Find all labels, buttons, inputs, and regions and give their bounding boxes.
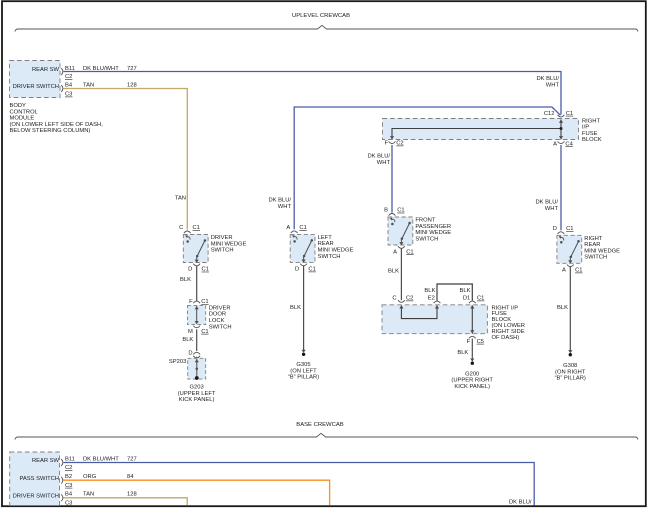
svg-text:WHT: WHT — [546, 83, 560, 89]
connector B11/C2 (BCM uplevel) — [61, 66, 75, 80]
svg-text:C3: C3 — [65, 500, 72, 506]
connector D (inline) — [188, 350, 200, 358]
svg-text:SP203: SP203 — [169, 359, 186, 365]
connector A/C1 (bottom of right rear mini wedge switch) — [562, 265, 582, 274]
svg-text:MINI WEDGE: MINI WEDGE — [584, 248, 620, 254]
ground G305 — [288, 350, 319, 381]
driver door lock switch — [188, 305, 206, 324]
connector E2 (fuse block lower) — [428, 296, 441, 304]
connector B/C1 (top of front passenger mini wedge switch) — [384, 208, 404, 216]
wire BLK (driver switch to door lock switch) — [196, 266, 198, 301]
svg-text:C: C — [179, 225, 183, 231]
label TAN 128 — [83, 82, 137, 88]
label DK BLU/WHT 727 (base) — [83, 456, 137, 462]
svg-text:DRIVER: DRIVER — [209, 305, 231, 311]
wire BLK (front passenger switch to C2) — [400, 249, 402, 301]
svg-text:C2: C2 — [65, 465, 72, 471]
svg-text:(ON LOWER LEFT SIDE OF DASH,: (ON LOWER LEFT SIDE OF DASH, — [10, 122, 104, 128]
wire ORG 84 (base) — [64, 480, 330, 505]
svg-text:PASS SWITCH: PASS SWITCH — [19, 476, 59, 482]
svg-text:C1: C1 — [406, 249, 413, 255]
svg-text:BLK: BLK — [457, 350, 468, 356]
svg-text:128: 128 — [127, 492, 137, 498]
svg-text:B: B — [384, 208, 388, 214]
connector M/C1 (door lock switch bottom) — [188, 326, 209, 335]
label DK BLU/WHT (C4 drop) — [535, 200, 558, 213]
svg-text:G200: G200 — [465, 371, 479, 377]
connector F/C5 (fuse block lower, bottom) — [467, 336, 484, 345]
svg-text:BLK: BLK — [424, 288, 435, 294]
svg-text:C1: C1 — [566, 111, 573, 117]
svg-text:UPLEVEL CREWCAB: UPLEVEL CREWCAB — [292, 13, 350, 19]
svg-text:727: 727 — [127, 456, 137, 462]
svg-text:WHT: WHT — [545, 206, 559, 212]
svg-text:F: F — [384, 141, 388, 147]
svg-text:“B” PILLAR): “B” PILLAR) — [288, 375, 319, 381]
svg-text:DRIVER: DRIVER — [211, 235, 233, 241]
label BCM location — [10, 103, 104, 134]
svg-text:A: A — [393, 249, 397, 255]
right IP fuse block (upper) — [383, 119, 579, 140]
svg-text:REAR SW: REAR SW — [32, 458, 60, 464]
svg-text:REAR SW: REAR SW — [32, 67, 60, 73]
svg-text:D: D — [188, 267, 192, 273]
body control module (base) — [10, 452, 60, 506]
svg-text:TAN: TAN — [175, 196, 186, 202]
svg-text:SWITCH: SWITCH — [584, 255, 607, 261]
svg-text:TAN: TAN — [83, 82, 94, 88]
svg-text:C4: C4 — [565, 141, 573, 147]
svg-text:DK BLU/WHT: DK BLU/WHT — [83, 66, 119, 72]
wire DK BLU/WHT branch to left rear switch — [294, 107, 560, 229]
svg-text:BLK: BLK — [180, 277, 191, 283]
svg-text:C2: C2 — [406, 296, 413, 302]
svg-text:D: D — [295, 267, 299, 273]
svg-text:BLK: BLK — [460, 288, 471, 294]
connector B4/C3 (BCM base) — [61, 492, 73, 507]
connector B2/C3 (BCM base) — [61, 474, 72, 489]
svg-text:BELOW STEERING COLUMN): BELOW STEERING COLUMN) — [10, 128, 91, 134]
svg-text:TAN: TAN — [83, 492, 94, 498]
wire DK BLU/WHT 727 (base) — [64, 463, 535, 506]
label ORG 84 — [83, 474, 134, 480]
section brace (uplevel crewcab) — [15, 25, 638, 31]
label DK BLU/WHT (left rear branch) — [268, 198, 291, 211]
right rear mini wedge switch — [557, 235, 582, 263]
svg-text:C1: C1 — [202, 267, 209, 273]
svg-text:I/P: I/P — [582, 125, 589, 131]
wire TAN 128 (BCM to driver switch) — [64, 89, 188, 230]
svg-text:D: D — [188, 350, 192, 356]
svg-text:C5: C5 — [477, 339, 484, 345]
svg-text:C3: C3 — [65, 483, 72, 489]
svg-text:C1: C1 — [477, 296, 484, 302]
svg-text:DRIVER SWITCH: DRIVER SWITCH — [13, 84, 59, 90]
svg-text:WHT: WHT — [278, 204, 292, 210]
svg-text:B11: B11 — [65, 456, 75, 462]
svg-text:KICK PANEL): KICK PANEL) — [454, 384, 490, 390]
connector A/C4 (fuse block bottom right) — [553, 141, 573, 147]
svg-text:C3: C3 — [65, 92, 72, 98]
svg-text:KICK PANEL): KICK PANEL) — [179, 397, 215, 403]
section brace (base crewcab) — [15, 433, 638, 439]
svg-text:(ON RIGHT: (ON RIGHT — [555, 369, 586, 375]
svg-text:G308: G308 — [563, 363, 577, 369]
connector C/C1 (top of driver mini wedge switch) — [179, 225, 200, 233]
svg-text:MINI WEDGE: MINI WEDGE — [211, 241, 247, 247]
svg-text:F: F — [189, 299, 193, 305]
svg-text:SWITCH: SWITCH — [211, 248, 234, 254]
svg-text:F: F — [467, 339, 471, 345]
svg-text:D1: D1 — [463, 296, 470, 302]
connector C12/C1 (right IP fuse block top) — [544, 111, 573, 117]
driver mini wedge switch — [183, 235, 208, 263]
svg-text:84: 84 — [127, 474, 134, 480]
svg-text:SWITCH: SWITCH — [209, 324, 232, 330]
label DK BLU/WHT (C2 drop) — [367, 154, 390, 167]
svg-text:FRONT: FRONT — [415, 218, 435, 224]
svg-text:PASSENGER: PASSENGER — [415, 224, 451, 230]
svg-text:C1: C1 — [193, 225, 200, 231]
svg-text:C2: C2 — [396, 141, 403, 147]
svg-text:LEFT: LEFT — [318, 235, 333, 241]
svg-text:DOOR: DOOR — [209, 312, 226, 318]
svg-text:ORG: ORG — [83, 474, 97, 480]
wire BLK loop E2 to D1 — [437, 284, 472, 301]
svg-text:G305: G305 — [296, 362, 310, 368]
connector D/C1 (bottom of left rear mini wedge switch) — [295, 264, 316, 273]
right IP fuse block (lower) — [382, 305, 487, 334]
svg-text:RIGHT: RIGHT — [582, 118, 600, 124]
svg-text:727: 727 — [127, 66, 137, 72]
connector F/C2 (fuse block bottom left) — [384, 141, 403, 147]
junction (inside fuse block) — [560, 127, 563, 130]
svg-text:MINI WEDGE: MINI WEDGE — [415, 230, 451, 236]
svg-text:MINI WEDGE: MINI WEDGE — [318, 248, 354, 254]
wire to splice SP203 — [196, 357, 198, 359]
svg-text:DK BLU/: DK BLU/ — [268, 198, 291, 204]
svg-text:(ON LEFT: (ON LEFT — [290, 368, 317, 374]
connector D/C1 (bottom of driver mini wedge switch) — [188, 264, 209, 273]
svg-text:BLK: BLK — [388, 269, 399, 275]
wire DK BLU/WHT (C4 to right rear switch) — [560, 145, 562, 230]
connector F/C1 (door lock switch top) — [189, 299, 208, 305]
svg-text:REAR: REAR — [318, 241, 334, 247]
wire DK BLU/WHT 727 (BCM to C12) — [64, 72, 562, 115]
svg-text:C1: C1 — [308, 267, 315, 273]
connector A/C1 (bottom of front passenger mini wedge switch) — [393, 246, 413, 255]
ground G308 — [555, 350, 586, 382]
svg-text:FUSE: FUSE — [582, 131, 598, 137]
svg-text:DK BLU/: DK BLU/ — [536, 76, 559, 82]
wire BLK (door lock switch to D) — [196, 329, 198, 351]
svg-text:BLK: BLK — [557, 305, 568, 311]
svg-text:C1: C1 — [575, 268, 582, 274]
label right IP fuse block — [582, 118, 602, 143]
connector C/C2 (fuse block lower, entry) — [392, 296, 413, 303]
svg-text:WHT: WHT — [377, 160, 391, 166]
svg-text:“B” PILLAR): “B” PILLAR) — [555, 376, 586, 382]
svg-text:CONTROL: CONTROL — [10, 109, 39, 115]
svg-text:C12: C12 — [544, 111, 555, 117]
svg-text:C: C — [392, 296, 396, 302]
left rear mini wedge switch — [290, 234, 315, 262]
connector D/C1 (top of right rear mini wedge switch) — [553, 226, 574, 234]
wire BLK (right rear switch to G308) — [569, 267, 571, 351]
svg-text:C1: C1 — [566, 226, 573, 232]
svg-text:A: A — [553, 141, 557, 147]
wire DK BLU/WHT (C2 to front passenger switch) — [391, 145, 393, 213]
connector A/C1 (top of left rear mini wedge switch) — [286, 225, 306, 233]
svg-text:BASE CREWCAB: BASE CREWCAB — [296, 422, 344, 428]
svg-text:MODULE: MODULE — [10, 116, 35, 122]
svg-text:DK BLU/: DK BLU/ — [535, 200, 558, 206]
svg-text:(UPPER LEFT: (UPPER LEFT — [178, 391, 216, 397]
connector B4/C3 (BCM uplevel) — [61, 82, 73, 97]
ground G200 — [451, 359, 493, 390]
label DK BLU/WHT (at C12 drop) — [536, 76, 559, 89]
svg-text:128: 128 — [127, 82, 137, 88]
svg-text:C1: C1 — [299, 225, 306, 231]
label DK BLU/WHT 727 — [83, 66, 137, 72]
svg-text:BLK: BLK — [290, 305, 301, 311]
wire BLK (left rear switch to G305) — [303, 266, 305, 351]
svg-text:LOCK: LOCK — [209, 318, 225, 324]
svg-text:B4: B4 — [65, 492, 73, 498]
label TAN 128 (base) — [83, 492, 137, 498]
svg-text:SWITCH: SWITCH — [318, 254, 341, 260]
svg-text:BODY: BODY — [10, 103, 27, 109]
svg-text:E2: E2 — [428, 296, 435, 302]
splice SP203 — [188, 358, 206, 379]
front passenger mini wedge switch — [388, 217, 413, 245]
svg-text:BLK: BLK — [182, 337, 193, 343]
connector D1/C1 (fuse block lower) — [463, 296, 485, 304]
svg-text:C2: C2 — [65, 74, 72, 80]
svg-text:RIGHT: RIGHT — [584, 236, 602, 242]
svg-text:OF DASH): OF DASH) — [492, 335, 520, 341]
svg-text:SWITCH: SWITCH — [415, 236, 438, 242]
wire BLK (C5 to G200) — [471, 339, 473, 360]
svg-text:DRIVER SWITCH: DRIVER SWITCH — [13, 494, 59, 500]
svg-text:M: M — [188, 329, 193, 335]
ground G203 — [178, 376, 216, 403]
svg-text:A: A — [286, 225, 290, 231]
svg-text:C1: C1 — [397, 208, 404, 214]
svg-text:C1: C1 — [201, 329, 208, 335]
connector B11/C2 (BCM base) — [61, 456, 75, 471]
label right IP fuse block (lower) — [492, 305, 526, 341]
svg-text:DK BLU/: DK BLU/ — [509, 499, 532, 505]
svg-text:B4: B4 — [65, 82, 73, 88]
label driver door lock switch — [209, 305, 232, 330]
wire TAN 128 (base) — [64, 498, 188, 506]
svg-text:DK BLU/: DK BLU/ — [367, 154, 390, 160]
svg-text:B2: B2 — [65, 474, 72, 480]
body control module (uplevel) — [10, 61, 61, 98]
svg-text:G203: G203 — [190, 385, 204, 391]
svg-text:REAR: REAR — [584, 242, 600, 248]
svg-text:BLOCK: BLOCK — [582, 137, 602, 143]
svg-text:A: A — [562, 268, 566, 274]
svg-text:C1: C1 — [201, 299, 208, 305]
svg-text:(UPPER RIGHT: (UPPER RIGHT — [451, 378, 493, 384]
svg-text:DK BLU/WHT: DK BLU/WHT — [83, 456, 119, 462]
svg-text:D: D — [553, 226, 557, 232]
